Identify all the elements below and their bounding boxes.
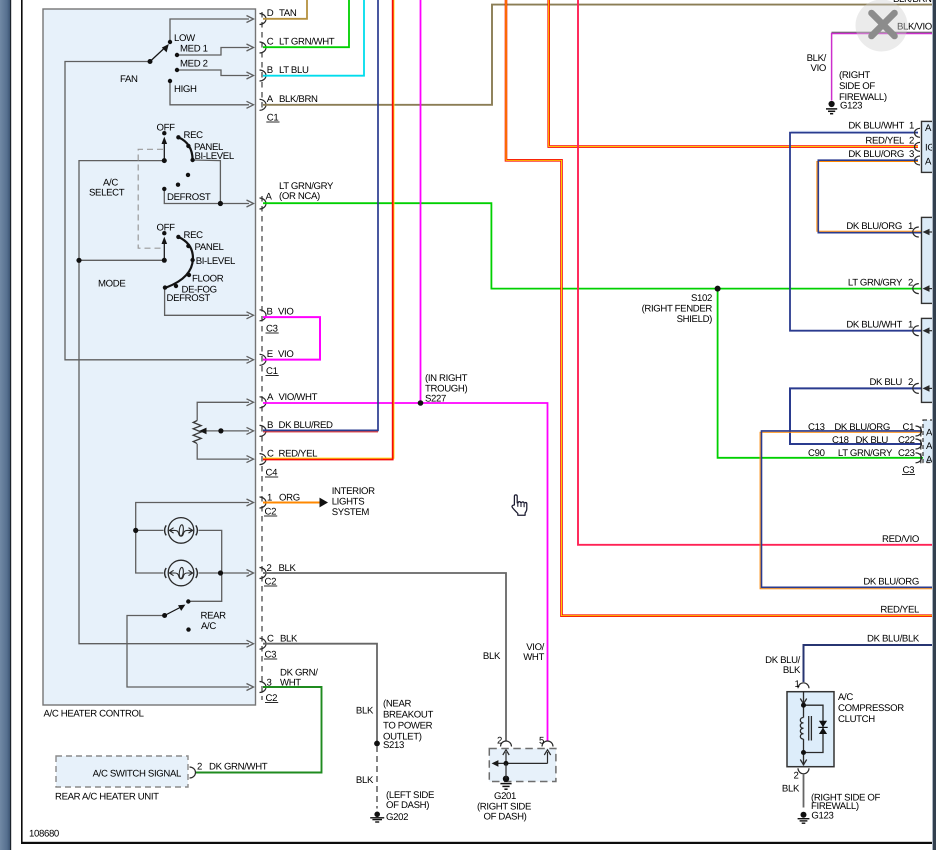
pin 1 arc (798, 683, 809, 689)
svg-text:PANEL: PANEL (195, 242, 225, 253)
wire VIO/WHT from pin A C4 through S227 down to G201 pin 5 (263, 403, 548, 742)
resistor wiper dot (218, 428, 223, 433)
svg-text:C90: C90 (808, 448, 825, 459)
page bottom border (21, 842, 934, 844)
svg-text:2: 2 (197, 762, 202, 773)
svg-text:OFF: OFF (157, 123, 176, 134)
G201 ground symbol (500, 784, 511, 790)
lamp L2 (illumination bulb) (165, 560, 198, 586)
svg-text:BI-LEVEL: BI-LEVEL (195, 151, 235, 162)
svg-text:C1: C1 (903, 422, 915, 433)
svg-text:TAN: TAN (279, 8, 297, 19)
wire LT GRN/GRY from pin A to S102 and connector (right) (263, 203, 933, 288)
REAR A/C switch arm (165, 607, 181, 616)
ground G202 (370, 812, 384, 823)
wire A/C SELECT BI-LEVEL branch (193, 160, 221, 204)
svg-text:G202: G202 (386, 812, 408, 823)
pin arc+bar C1 (916, 426, 922, 437)
junction S227 (418, 400, 424, 406)
MODE switch arm (points to OFF) (163, 241, 165, 260)
wire DK BLU/ORG from pin C1 to DK BLU/ORG output (760, 432, 933, 588)
wire FAN HIGH to pin A (170, 81, 249, 105)
svg-text:5: 5 (539, 736, 544, 747)
pin arc + arrow, LT GRN/GRY 2 (913, 284, 936, 294)
svg-text:BI-LEVEL: BI-LEVEL (196, 256, 236, 267)
svg-text:DK BLU/BLK: DK BLU/BLK (867, 634, 920, 645)
pin arcs block 1 (915, 128, 920, 165)
svg-text:DK BLU/ORG: DK BLU/ORG (863, 577, 919, 588)
wire FAN MED2 to pin B (177, 70, 249, 76)
svg-text:DK BLU/WHT: DK BLU/WHT (848, 121, 904, 132)
svg-text:SELECT: SELECT (89, 188, 125, 199)
MODE contacts (162, 231, 166, 235)
svg-text:BLK: BLK (279, 563, 297, 574)
wire resistor wiper to pin B (C4) (203, 430, 249, 432)
svg-text:B: B (267, 307, 273, 318)
svg-text:A/C: A/C (838, 692, 853, 703)
svg-text:S227: S227 (425, 394, 446, 405)
diode branch (804, 705, 824, 752)
wire VIO loop pin B C3 to pin E C1 (263, 317, 320, 360)
connector dashed boundary lines at panel edge (261, 12, 263, 700)
svg-text:S102: S102 (691, 293, 712, 304)
svg-text:REC: REC (184, 230, 204, 241)
svg-text:A: A (267, 94, 274, 105)
A/C SELECT contacts (162, 131, 166, 135)
wire lamp1 right lead to vertical (188, 530, 221, 601)
svg-text:INTERIOR: INTERIOR (332, 486, 375, 497)
svg-text:A/C SWITCH SIGNAL: A/C SWITCH SIGNAL (93, 769, 182, 780)
wire lamp feed from pin 1 (ORG side) (136, 503, 249, 574)
wire DK BLU from pin 2 down to pin C22 (790, 388, 922, 444)
wire BLK/BRN (pin A C1, runs along top edge) (263, 5, 933, 105)
svg-text:VIO: VIO (811, 63, 826, 74)
svg-text:REC: REC (184, 130, 204, 141)
REAR A/C contacts (186, 599, 190, 603)
svg-text:BLK: BLK (783, 665, 801, 676)
svg-text:BREAKOUT: BREAKOUT (383, 710, 433, 721)
ground G123 (bottom) (798, 812, 810, 823)
svg-text:2: 2 (794, 770, 799, 781)
svg-text:1: 1 (909, 121, 914, 132)
wire BLK (pin C C3) to S213 (263, 644, 377, 744)
svg-text:C: C (267, 37, 274, 48)
svg-text:CLUTCH: CLUTCH (838, 714, 875, 725)
svg-text:RED/YEL: RED/YEL (279, 449, 319, 460)
A/C SELECT arm arrowhead (162, 137, 168, 144)
wire ORG (pin 1 C2) to interior lights system (263, 502, 320, 504)
svg-text:(IN RIGHT: (IN RIGHT (425, 373, 468, 384)
wire DK GRN/WHT (pin 3 C2) to rear A/C heater unit (195, 687, 322, 773)
svg-text:LT BLU: LT BLU (279, 65, 309, 76)
wire RED/YEL riser (x506) to elbow and down to RED/YEL output (506, 0, 933, 616)
svg-text:S213: S213 (383, 740, 404, 751)
svg-text:DEFROST: DEFROST (167, 293, 211, 304)
svg-text:TO POWER: TO POWER (383, 721, 433, 732)
svg-text:A: A (926, 441, 933, 452)
svg-text:LT GRN/WHT: LT GRN/WHT (279, 37, 335, 48)
svg-text:E: E (267, 349, 273, 360)
svg-text:LOW: LOW (174, 33, 196, 44)
resistor R (blower resistor) (193, 421, 201, 444)
svg-text:RED/YEL: RED/YEL (880, 605, 920, 616)
wire FAN LOW to pin D (170, 19, 249, 42)
svg-text:1: 1 (908, 221, 913, 232)
svg-text:(OR NCA): (OR NCA) (279, 191, 320, 202)
svg-text:C: C (267, 449, 274, 460)
svg-text:COMPRESSOR: COMPRESSOR (838, 703, 904, 714)
svg-text:(RIGHT: (RIGHT (839, 70, 870, 81)
wire DK BLU/BLK from A/C compressor clutch to right edge (804, 645, 934, 682)
wire BLK from clutch pin 2 to ground G123 (803, 775, 805, 808)
svg-text:1: 1 (908, 320, 913, 331)
right window frame bar (933, 0, 936, 850)
svg-text:B: B (267, 65, 273, 76)
svg-text:SIDE OF: SIDE OF (839, 81, 875, 92)
pin arc symbols ")" on heater control connectors (260, 14, 267, 693)
wire VIO/WHT riser from S227 to top edge (420, 0, 422, 403)
svg-text:A: A (925, 123, 932, 134)
svg-text:MED 1: MED 1 (180, 44, 208, 55)
svg-text:BLK/BRN: BLK/BRN (279, 94, 318, 105)
wire FAN MED1 to pin C (177, 48, 249, 56)
svg-text:BLK: BLK (356, 706, 374, 717)
svg-text:A/C HEATER CONTROL: A/C HEATER CONTROL (44, 709, 145, 720)
svg-text:REAR A/C HEATER UNIT: REAR A/C HEATER UNIT (55, 792, 159, 803)
svg-text:VIO: VIO (278, 349, 293, 360)
connector block 2 (922, 217, 936, 303)
wire LT GRN/WHT (pin C C1) (263, 0, 349, 47)
page left border (21, 0, 23, 844)
svg-text:3: 3 (267, 678, 272, 689)
MODE detent arc REC-PANEL-BI-LEVEL-FLOOR-DE-FOG (167, 237, 193, 288)
svg-text:BLK: BLK (483, 651, 501, 662)
connector block 1 (fuse/junction block A, IG, A) (922, 121, 936, 172)
svg-text:VIO: VIO (278, 307, 293, 318)
svg-text:BLK: BLK (280, 634, 298, 645)
clutch internals (800, 692, 823, 766)
svg-text:BLK: BLK (782, 783, 800, 794)
svg-text:G123: G123 (811, 811, 833, 822)
svg-text:FAN: FAN (120, 74, 138, 85)
svg-text:LIGHTS: LIGHTS (332, 497, 365, 508)
svg-text:DK BLU: DK BLU (869, 377, 902, 388)
wire LT BLU (pin B C1) (263, 0, 364, 76)
wire REAR A/C common to pin 3 (127, 616, 249, 688)
wire MODE DEFROST to pin B (C3) (165, 288, 249, 315)
wire RED/YEL riser (x548.7) to fuse block pin 2 (549, 0, 918, 147)
svg-text:DK BLU/WHT: DK BLU/WHT (846, 320, 902, 331)
svg-text:DK BLU/ORG: DK BLU/ORG (834, 422, 890, 433)
wire DK BLU/ORG from fuse pin 3 to connector pin 1 (817, 162, 922, 232)
svg-text:REAR: REAR (201, 611, 227, 622)
svg-text:G123: G123 (840, 101, 862, 112)
svg-text:LT GRN/GRY: LT GRN/GRY (838, 448, 893, 459)
G201 pin arcs on top edge (501, 741, 554, 746)
coil branch (803, 705, 805, 717)
wire RED/YEL (pin C C4) riser to top (263, 0, 394, 458)
svg-text:DK BLU/ORG: DK BLU/ORG (848, 149, 904, 160)
svg-text:OFF: OFF (157, 223, 176, 234)
svg-text:1: 1 (267, 493, 272, 504)
svg-text:A: A (267, 392, 274, 403)
svg-text:1: 1 (795, 679, 800, 690)
svg-text:FLOOR: FLOOR (192, 274, 224, 285)
FAN contacts (148, 59, 153, 64)
connector C3 (dashed, pins C1 C22 C23) (923, 420, 936, 463)
junction S102 (715, 286, 721, 292)
svg-text:DK BLU: DK BLU (855, 435, 888, 446)
ground G123 (right side of firewall, top) (826, 101, 837, 114)
dashed BLK from S213 to ground G202 (376, 746, 378, 809)
svg-text:C13: C13 (808, 422, 825, 433)
diode D1 (819, 721, 827, 727)
svg-text:LT GRN/GRY: LT GRN/GRY (848, 278, 903, 289)
svg-text:RED/YEL: RED/YEL (865, 136, 905, 147)
dashed gang link between A/C SELECT and MODE switches (138, 149, 163, 248)
svg-text:DEFROST: DEFROST (167, 192, 211, 203)
wire A/C SELECT common bus to pin C (C3) (79, 161, 249, 644)
lamp junction dots (133, 528, 138, 533)
wire FAN common bus to pin E (65, 62, 249, 360)
pin arc + arrow, DK BLU 2 (913, 383, 936, 393)
REAR A/C arm arrowhead (178, 605, 185, 611)
svg-text:OF DASH): OF DASH) (386, 800, 429, 811)
switch contact dots (76, 40, 223, 632)
A/C SELECT detent arc REC-PANEL-BI-LEVEL (178, 137, 192, 160)
pin 2 arc of rear unit (190, 767, 196, 778)
svg-text:C: C (267, 634, 274, 645)
wire A/C SELECT DEFROST to pin A (LT GRN/GRY) (164, 189, 249, 204)
pin arc+bar C22 (916, 439, 922, 450)
pin arc+bar C23 (916, 453, 922, 464)
svg-text:C22: C22 (898, 435, 915, 446)
FAN switch arm (150, 49, 164, 62)
wire RED/VIO riser (x578) down to RED/VIO output (578, 0, 933, 545)
svg-text:SHIELD): SHIELD) (677, 314, 713, 325)
pin 2 arc (798, 768, 809, 774)
svg-text:2: 2 (908, 278, 913, 289)
wire DK BLU/RED (pin B C4) riser to top (263, 431, 378, 433)
svg-text:A: A (926, 428, 933, 439)
A/C SELECT switch arm (points to OFF) (163, 141, 165, 161)
wire lamp1 left lead (136, 529, 164, 531)
svg-text:A/C: A/C (201, 621, 216, 632)
resistor wiper arrowhead (199, 428, 206, 435)
exit arrow down (803, 753, 805, 766)
FAN arm arrowhead (162, 44, 169, 52)
svg-text:DK BLU/ORG: DK BLU/ORG (846, 221, 902, 232)
underlines for connector names (264, 122, 915, 703)
svg-text:C18: C18 (832, 435, 849, 446)
svg-text:A: A (266, 192, 273, 203)
svg-text:2: 2 (909, 136, 914, 147)
svg-text:BLK: BLK (356, 775, 374, 786)
in-panel pin arrowheads (open V) (247, 16, 254, 691)
pin arc + arrow, DK BLU/ORG 1 (913, 227, 936, 237)
connector block 3 (922, 318, 936, 402)
MODE arm arrowhead (162, 237, 168, 244)
entry arrow down (803, 692, 805, 706)
core bars (808, 716, 810, 741)
svg-text:MODE: MODE (98, 279, 125, 290)
svg-text:2: 2 (267, 563, 272, 574)
wire resistor bottom to pin C (C4) (197, 444, 249, 459)
wire resistor top to pin A (C4) (197, 402, 249, 420)
svg-text:MED 2: MED 2 (180, 59, 208, 70)
svg-text:VIO/WHT: VIO/WHT (279, 392, 318, 403)
wire MODE common to bus (79, 259, 164, 261)
svg-text:G201: G201 (494, 791, 516, 802)
wire lamp2 right lead to pin 2 (199, 572, 250, 574)
svg-text:WHT: WHT (280, 678, 301, 689)
pin arc + arrow, DK BLU/WHT 1 (913, 326, 936, 336)
svg-text:HIGH: HIGH (174, 84, 197, 95)
svg-text:3: 3 (909, 149, 914, 160)
svg-text:BLK/BRN: BLK/BRN (893, 0, 932, 5)
svg-text:(RIGHT FENDER: (RIGHT FENDER (642, 304, 713, 315)
svg-text:2: 2 (497, 736, 502, 747)
svg-text:DK GRN/WHT: DK GRN/WHT (209, 762, 268, 773)
svg-text:(NEAR: (NEAR (383, 699, 412, 710)
lamp L1 (illumination bulb) (165, 518, 198, 544)
junction S213 (374, 741, 380, 747)
svg-text:C23: C23 (898, 448, 915, 459)
A/C heater control panel box (43, 9, 256, 705)
arrow to interior lights system (320, 498, 329, 508)
svg-text:SYSTEM: SYSTEM (332, 507, 370, 518)
svg-text:OF DASH): OF DASH) (483, 812, 526, 823)
svg-text:A: A (926, 455, 933, 466)
svg-text:RED/VIO: RED/VIO (882, 534, 919, 545)
G201 internal arrows (494, 750, 551, 764)
wire BLK (pin 2 C2) down to G201 pin 2 (263, 573, 506, 742)
svg-text:108680: 108680 (29, 829, 59, 840)
svg-text:A: A (925, 157, 932, 168)
svg-text:ORG: ORG (279, 493, 300, 504)
svg-text:2: 2 (908, 377, 913, 388)
svg-text:D: D (267, 8, 274, 19)
svg-text:B: B (267, 420, 273, 431)
wire BLK/VIO at top right to ground G123 (832, 31, 934, 33)
wire DK BLU/WHT from fuse pin 1 down to AC pin 1 (790, 133, 922, 331)
svg-text:DK BLU/RED: DK BLU/RED (279, 420, 333, 431)
svg-text:WHT: WHT (523, 652, 544, 663)
wire TAN (pin D C1) (263, 0, 307, 19)
wire LT GRN/GRY branch from S102 down to pin C23 (718, 289, 923, 458)
